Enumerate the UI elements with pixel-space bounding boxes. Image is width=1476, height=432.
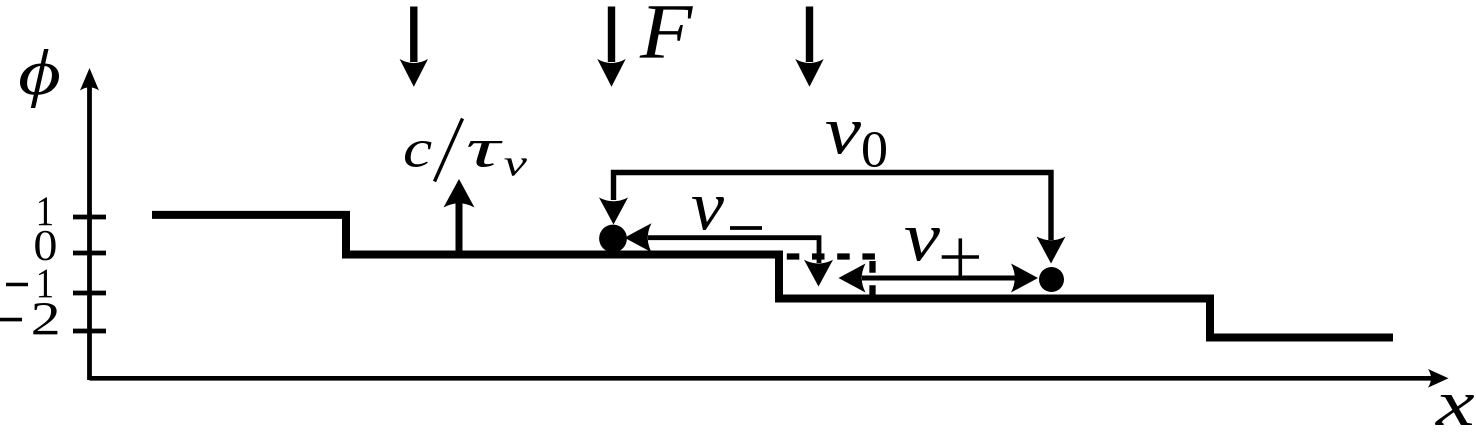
kink particle left — [599, 225, 627, 253]
dashed former step position — [787, 253, 875, 259]
tick label 1 — [39, 197, 52, 225]
y-axis tick -2 — [73, 329, 106, 334]
label F — [639, 6, 693, 57]
step profile curve phi(x) — [152, 215, 1393, 338]
nucleation rate up arrow — [444, 179, 475, 252]
nu_plus double arrow — [839, 264, 1039, 293]
label nu_minus — [692, 197, 762, 230]
label c/tau_v — [405, 119, 527, 182]
nu0 hop path bracket — [599, 173, 1066, 264]
driving force arrow middle — [597, 7, 625, 87]
driving force arrow left — [400, 7, 428, 87]
label nu_plus — [905, 228, 979, 276]
tick label -1 — [6, 283, 28, 287]
kink particle right — [1039, 267, 1064, 292]
axis label x — [1435, 395, 1474, 425]
nu_minus hop arrow — [625, 223, 834, 286]
label nu_0 — [826, 122, 886, 167]
tick label -2 — [0, 318, 22, 322]
y-axis tick -1 — [73, 291, 106, 296]
y-axis tick 1 — [73, 215, 106, 220]
y-axis tick 0 — [73, 251, 106, 256]
dashed vertical of former step — [869, 261, 875, 295]
y-axis — [80, 68, 99, 380]
tick label 0 — [35, 231, 55, 261]
axis label phi — [20, 49, 59, 108]
driving force arrow right — [795, 7, 823, 87]
x-axis — [90, 369, 1449, 388]
